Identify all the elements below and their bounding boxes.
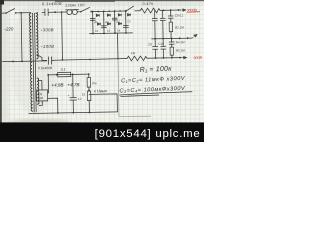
wire bottom rail right bbox=[147, 57, 182, 59]
wire right column 3 lower bbox=[171, 38, 173, 57]
resistor R6 0,1 bbox=[58, 72, 71, 77]
capacitor C8 bbox=[168, 16, 173, 18]
svg-text:С9: С9 bbox=[148, 43, 152, 47]
output arrow bottom right bbox=[181, 56, 186, 59]
svg-text:0,1х400В: 0,1х400В bbox=[42, 2, 62, 6]
node junction A bbox=[20, 12, 22, 14]
label L1 value 115mk bbox=[65, 3, 85, 7]
wire top rail left segment bbox=[2, 12, 6, 14]
wire filter cap branch bbox=[72, 74, 75, 112]
inductor L1 choke bbox=[66, 9, 80, 14]
label C9 bbox=[148, 43, 152, 47]
resistor R1 zigzag bbox=[140, 8, 160, 13]
svg-text:~220: ~220 bbox=[3, 26, 14, 31]
wire bottom doubler rail left bbox=[2, 60, 46, 63]
wire middle rail right bbox=[152, 37, 193, 40]
diode D1 bbox=[96, 14, 99, 17]
svg-text:+4,7В: +4,7В bbox=[67, 82, 79, 87]
svg-text:5,0х400В: 5,0х400В bbox=[38, 66, 53, 70]
label ~100V winding bbox=[40, 44, 54, 49]
label C4 bbox=[117, 28, 121, 32]
capacitor C3 bbox=[101, 26, 106, 28]
label k Uvyh bbox=[94, 88, 108, 93]
svg-text:402: 402 bbox=[38, 96, 43, 100]
capacitor C9 bbox=[153, 46, 158, 49]
resistor R4 bbox=[170, 47, 174, 55]
red output label top bbox=[187, 8, 200, 12]
formula box edge bbox=[118, 58, 151, 117]
label R6 value 0,1 bbox=[61, 68, 66, 72]
svg-text:R4 1М: R4 1М bbox=[176, 40, 185, 44]
capacitor C13 filter bbox=[68, 93, 82, 101]
bridge rectifier U1 KC402 bbox=[36, 90, 47, 101]
label R1 value 47k bbox=[142, 2, 153, 6]
diode D5 bbox=[118, 22, 121, 25]
output arrow middle bbox=[192, 34, 197, 38]
formula line 2 C1=C2 bbox=[121, 76, 186, 85]
svg-text:R₁ = 100к: R₁ = 100к bbox=[140, 66, 173, 74]
label ~220 input bbox=[3, 26, 14, 31]
scan bottom paper shadow bbox=[8, 119, 70, 124]
svg-text:[901x544] uplc.me: [901x544] uplc.me bbox=[95, 128, 201, 140]
wire vertical from node A down bbox=[20, 13, 23, 62]
wire vertical from C1 node down bbox=[61, 12, 64, 61]
svg-text:Т2: Т2 bbox=[82, 93, 86, 97]
capacitor C2 bbox=[90, 19, 95, 21]
wire multiplier bottom rail bbox=[90, 32, 133, 35]
node divider tap bbox=[88, 89, 90, 91]
capacitor C11 bbox=[169, 42, 174, 44]
wire right column 1 upper bbox=[154, 10, 156, 38]
scan corner blob bbox=[0, 0, 4, 5]
transformer T1 core bbox=[32, 13, 36, 112]
wire secondary upper to rail bbox=[36, 13, 38, 14]
label C10 bbox=[158, 42, 164, 46]
svg-text:115мк 100: 115мк 100 bbox=[65, 3, 85, 7]
wire divider branch bbox=[88, 74, 91, 112]
resistor R2 bbox=[169, 22, 173, 32]
svg-text:R5 1М: R5 1М bbox=[176, 48, 185, 52]
wire bottom doubler rail middle bbox=[53, 58, 118, 61]
multiplier column wire 4 bbox=[125, 11, 127, 33]
switch S1 bbox=[5, 9, 16, 14]
wire right column 2 lower bbox=[162, 39, 164, 58]
wire right column 2 upper bbox=[162, 10, 164, 38]
svg-text:0,1: 0,1 bbox=[61, 68, 66, 72]
formula line 3 C3=C4 bbox=[119, 86, 186, 95]
wire to resistor R3 bbox=[118, 58, 127, 60]
transformer T1 secondary winding upper bbox=[36, 13, 38, 59]
diode D3 bbox=[118, 14, 121, 17]
scan edge left bbox=[0, 0, 2, 124]
wire bridge output bottom bbox=[48, 98, 58, 113]
svg-text:к Uвых: к Uвых bbox=[94, 88, 108, 93]
formula line 1 R=100k bbox=[140, 66, 173, 74]
label R8 bbox=[82, 93, 86, 97]
capacitor C7 bbox=[160, 18, 165, 20]
switch S2 bbox=[80, 7, 92, 12]
scan edge top bbox=[0, 0, 204, 1]
svg-text:С8 0,1: С8 0,1 bbox=[175, 13, 184, 17]
wire ground bottom rail bbox=[29, 111, 118, 114]
diode D2 bbox=[107, 14, 110, 17]
wire top rail right bbox=[160, 9, 181, 11]
transformer T1 primary winding bbox=[29, 13, 32, 111]
label R2 bbox=[175, 25, 184, 29]
wire right column 1 lower bbox=[154, 39, 156, 58]
wire top rail to transformer bbox=[16, 12, 31, 14]
label ~300V winding bbox=[40, 27, 54, 32]
wire output tap bbox=[89, 94, 117, 112]
paper background bbox=[0, 0, 204, 124]
label D2 bbox=[105, 20, 109, 24]
resistor R3 zigzag bbox=[127, 56, 147, 61]
svg-text:С10: С10 bbox=[158, 42, 164, 46]
multiplier column wire 1 bbox=[92, 12, 94, 34]
svg-text:Rн: Rн bbox=[92, 81, 96, 85]
label D1 bbox=[94, 20, 98, 24]
wire right column 3 upper bbox=[170, 10, 172, 38]
diode D7 bbox=[127, 13, 130, 16]
label +4,8V bbox=[51, 82, 63, 87]
resistor R7 bbox=[87, 78, 91, 88]
svg-text:0,47к: 0,47к bbox=[142, 2, 153, 6]
label C1 value 0,1x400V bbox=[42, 2, 62, 6]
label C12 value 5,0x400V bbox=[38, 66, 53, 70]
svg-text:1,0: 1,0 bbox=[77, 97, 81, 101]
wire secondary lower to bridge top bbox=[39, 80, 42, 90]
switch S3 bbox=[125, 6, 133, 12]
svg-text:~300В: ~300В bbox=[40, 27, 54, 32]
label R5 bbox=[176, 48, 185, 52]
label C3 bbox=[107, 29, 111, 33]
wire secondary lower to bridge bottom bbox=[39, 101, 42, 106]
wire multiplier drop bbox=[117, 33, 119, 60]
label R3 value 1M bbox=[131, 51, 136, 55]
multiplier column wire 2 bbox=[103, 11, 105, 33]
wire top rail after C1 bbox=[51, 11, 66, 13]
capacitor C5 bbox=[123, 25, 128, 27]
banner bar bbox=[0, 122, 204, 142]
output arrow top bbox=[181, 9, 186, 12]
svg-text:300В: 300В bbox=[193, 56, 202, 60]
wire to resistor R1 bbox=[135, 10, 140, 12]
label C5 bbox=[127, 19, 131, 23]
diode D4 bbox=[97, 23, 100, 26]
multiplier column wire 3 bbox=[114, 11, 116, 33]
capacitor C4 bbox=[112, 18, 117, 20]
wire bridge output top bbox=[47, 75, 48, 93]
wire multiplier top rail bbox=[91, 10, 126, 12]
wire secondary upper bottom stub bbox=[37, 54, 47, 60]
wire low-voltage rail bbox=[47, 73, 89, 76]
svg-text:R2 1М: R2 1М bbox=[175, 25, 184, 29]
resistor R8 bbox=[87, 91, 91, 101]
capacitor C10 bbox=[161, 46, 166, 49]
label C2 bbox=[95, 29, 99, 33]
red output label bottom bbox=[193, 56, 202, 60]
transformer T1 secondary winding lower bbox=[37, 78, 39, 104]
svg-text:+4,8В: +4,8В bbox=[51, 82, 63, 87]
svg-text:~100В: ~100В bbox=[40, 44, 54, 49]
capacitor C6 bbox=[152, 18, 157, 20]
label +4,7V bbox=[67, 82, 79, 87]
svg-text:+: + bbox=[68, 94, 70, 98]
capacitor C1 bbox=[42, 9, 51, 16]
label R7 Rn bbox=[92, 81, 96, 85]
formula underline bbox=[120, 92, 193, 97]
label C8 bbox=[175, 13, 184, 17]
label R4 bbox=[176, 40, 185, 44]
label D3 bbox=[116, 19, 120, 23]
capacitor C12 doubler bbox=[48, 57, 53, 65]
diode D6 bbox=[107, 23, 110, 26]
